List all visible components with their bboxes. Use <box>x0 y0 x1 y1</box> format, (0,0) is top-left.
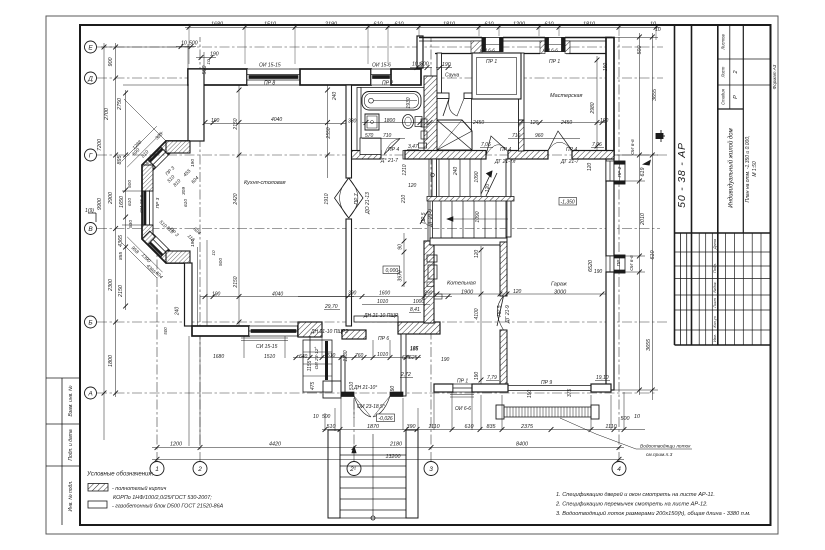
interior stair lower flight <box>430 201 507 238</box>
svg-text:Сауна: Сауна <box>445 73 460 79</box>
garage south wall right pier <box>591 384 611 392</box>
svg-text:ПР 4: ПР 4 <box>500 147 511 153</box>
south entry wall chunk left <box>298 322 322 337</box>
svg-text:- полнотелый кирпич: - полнотелый кирпич <box>112 485 166 492</box>
south ext lines to bottom band <box>188 336 190 446</box>
bathroom north thin line <box>360 87 424 89</box>
svg-text:1800: 1800 <box>108 355 114 367</box>
bay facet W window <box>142 191 144 225</box>
kitchen bottom dim line <box>200 296 354 298</box>
toilet <box>403 115 423 129</box>
svg-text:7,79: 7,79 <box>487 375 497 381</box>
svg-text:2900: 2900 <box>108 192 114 205</box>
bay dim lines SW <box>127 237 162 272</box>
svg-text:ОИ 23-18,5°: ОИ 23-18,5° <box>357 404 385 410</box>
garage gate opening <box>508 386 591 391</box>
wall top-left exterior seg2 <box>300 69 371 85</box>
svg-text:120: 120 <box>530 120 539 126</box>
axis circle V <box>85 223 97 235</box>
svg-text:900: 900 <box>108 58 114 67</box>
workshop chimney block <box>472 53 521 99</box>
exterior stair right rail <box>406 430 418 518</box>
svg-text:13200: 13200 <box>386 454 401 460</box>
svg-text:Подп.: Подп. <box>713 263 717 273</box>
svg-text:1650: 1650 <box>119 196 125 208</box>
svg-text:Дата: Дата <box>713 239 717 250</box>
bay facet W pier b <box>142 225 153 239</box>
svg-text:610: 610 <box>127 198 133 206</box>
svg-text:2300: 2300 <box>108 279 114 292</box>
bath dim line 570 <box>362 138 405 140</box>
leader to drain note <box>560 418 692 449</box>
bay bottom band <box>166 251 190 263</box>
svg-text:ОИ 15-6: ОИ 15-6 <box>139 195 145 213</box>
south hall wall with PR6 door <box>342 330 366 339</box>
boiler window sill <box>450 395 474 398</box>
svg-text:610: 610 <box>485 22 494 28</box>
svg-text:1910: 1910 <box>324 193 330 204</box>
svg-text:-0,026: -0,026 <box>379 416 393 422</box>
revision table rows <box>675 233 771 345</box>
room labels <box>244 73 583 423</box>
svg-text:210: 210 <box>401 195 407 205</box>
kitchen interior vdim line2 <box>327 85 329 178</box>
svg-text:ДН 21-10°: ДН 21-10° <box>353 385 377 391</box>
svg-text:1930: 1930 <box>406 97 412 108</box>
sauna block north wall inner face <box>435 53 612 55</box>
svg-text:ПР 2: ПР 2 <box>616 255 622 266</box>
svg-text:Лист: Лист <box>721 66 726 78</box>
kitchen interior vdim line <box>238 85 240 326</box>
svg-text:1510: 1510 <box>264 22 276 28</box>
workshop door fan 2 <box>548 131 572 151</box>
boiler room north wall <box>430 238 507 245</box>
svg-text:710: 710 <box>383 133 392 139</box>
svg-text:190: 190 <box>594 269 603 275</box>
boiler/garage wall lower <box>500 330 507 387</box>
axis V line <box>97 228 660 230</box>
svg-text:Е: Е <box>88 45 93 52</box>
svg-text:3,47: 3,47 <box>408 144 418 150</box>
svg-text:1090: 1090 <box>474 171 480 182</box>
svg-text:ОИ 15-15: ОИ 15-15 <box>259 63 281 69</box>
svg-text:19,10: 19,10 <box>596 375 609 381</box>
axis circle 1 <box>150 462 164 476</box>
hall dim line2 <box>362 304 430 306</box>
svg-text:Лист: Лист <box>713 298 717 309</box>
svg-text:500: 500 <box>322 414 331 420</box>
stair right wall <box>506 159 511 237</box>
tambour west wall <box>341 356 345 396</box>
svg-text:10: 10 <box>206 59 211 65</box>
svg-text:10: 10 <box>634 414 640 420</box>
svg-text:500: 500 <box>621 416 630 422</box>
closet partition above boiler <box>428 197 433 241</box>
svg-text:610: 610 <box>395 22 404 28</box>
svg-text:4: 4 <box>617 466 621 473</box>
svg-text:610: 610 <box>545 22 554 28</box>
svg-text:2550: 2550 <box>326 127 332 139</box>
axis 3 line <box>430 37 432 462</box>
door PR5 boiler arc <box>497 296 503 330</box>
svg-text:Условные обозначения:: Условные обозначения: <box>86 472 154 478</box>
axis circle 3 <box>424 462 438 476</box>
kitchen south window sill <box>241 338 288 341</box>
right band ext lines <box>614 37 658 39</box>
svg-text:10: 10 <box>313 414 319 420</box>
drain grate <box>496 405 599 419</box>
svg-text:570: 570 <box>365 133 374 139</box>
wall top-left exterior seg3 <box>391 69 421 85</box>
hall dim line <box>298 296 452 298</box>
left margin stamp cells <box>46 378 80 525</box>
svg-text:380: 380 <box>348 119 357 125</box>
svg-text:500: 500 <box>218 258 224 266</box>
svg-text:29,70: 29,70 <box>324 304 338 310</box>
axis 2' line <box>353 392 355 462</box>
svg-text:710: 710 <box>512 133 521 139</box>
svg-text:2,72: 2,72 <box>400 372 411 378</box>
svg-text:Мастерская: Мастерская <box>550 93 583 99</box>
svg-text:1680: 1680 <box>211 22 223 28</box>
svg-text:ОИ 6-6: ОИ 6-6 <box>629 255 635 271</box>
bay dim lines NW <box>127 132 162 167</box>
porch ext lines <box>340 398 342 430</box>
svg-text:КОРПо 1НФ/100/2,0/25/ГОСТ 530-: КОРПо 1НФ/100/2,0/25/ГОСТ 530-2007; <box>113 495 212 501</box>
svg-text:2: 2 <box>733 70 739 74</box>
svg-text:1200: 1200 <box>513 22 525 28</box>
section mark 1(9) <box>88 213 96 222</box>
svg-text:960: 960 <box>535 133 544 139</box>
svg-text:50 - 38 - АР: 50 - 38 - АР <box>676 142 688 208</box>
axis B line <box>97 321 668 323</box>
svg-text:2450: 2450 <box>560 120 572 126</box>
svg-text:2700: 2700 <box>104 108 110 121</box>
svg-text:1090: 1090 <box>475 211 481 222</box>
section arrowhead lower <box>642 160 651 166</box>
window PR2/OI6-6 right upper <box>606 161 625 184</box>
svg-text:ДГ 21-7л: ДГ 21-7л <box>494 159 516 165</box>
mark 19.10 <box>595 375 610 381</box>
stair hall west wall <box>432 159 437 197</box>
mark 2.72 <box>400 372 413 378</box>
svg-text:3. Водоотводящий лоток размера: 3. Водоотводящий лоток размерами 200х150… <box>556 510 751 517</box>
kitchen east wall lower <box>346 219 352 326</box>
svg-text:610: 610 <box>374 22 383 28</box>
right exterior wall mid with window gaps <box>606 155 614 181</box>
svg-text:190: 190 <box>527 390 533 399</box>
svg-text:1600: 1600 <box>379 291 390 297</box>
svg-text:ОИ 15-6: ОИ 15-6 <box>372 63 391 69</box>
svg-text:760: 760 <box>355 353 364 359</box>
workshop dim line <box>424 122 606 124</box>
bay facet W pier a <box>142 165 153 191</box>
svg-text:ОИ 23-12°: ОИ 23-12° <box>314 347 320 370</box>
axis 4 line <box>618 37 620 462</box>
bathroom closet <box>360 138 381 155</box>
svg-text:ОИ 6-6: ОИ 6-6 <box>543 48 558 53</box>
svg-text:4040: 4040 <box>271 117 282 123</box>
legend block box <box>88 501 107 508</box>
axis circle 4 <box>612 462 626 476</box>
svg-text:Подп. и дата: Подп. и дата <box>68 429 74 461</box>
svg-text:Взам. инв. №: Взам. инв. № <box>68 385 74 417</box>
wash basin <box>365 114 379 130</box>
svg-text:2420: 2420 <box>233 193 239 205</box>
svg-text:9900: 9900 <box>97 198 103 210</box>
svg-text:120: 120 <box>474 250 480 259</box>
svg-text:Водоотводящи лоток: Водоотводящи лоток <box>640 444 691 450</box>
bay inner outline <box>153 153 190 251</box>
svg-text:640: 640 <box>299 354 308 360</box>
wall step left of sauna block <box>417 36 423 68</box>
svg-text:240: 240 <box>175 307 181 317</box>
svg-text:2. Спецификацию перемычек смот: 2. Спецификацию перемычек смотреть на ли… <box>555 502 708 508</box>
svg-text:835: 835 <box>487 424 497 430</box>
svg-text:240: 240 <box>453 167 459 177</box>
bath/sauna thick wall <box>424 76 437 155</box>
level mark 0.000 <box>383 266 400 274</box>
bay facet SW pier a <box>142 231 155 245</box>
stair up arrow chevron <box>481 171 497 196</box>
exterior stair left rail <box>328 430 340 518</box>
svg-text:510: 510 <box>327 424 336 430</box>
door DO21-13 double swing <box>335 178 364 218</box>
svg-text:2750: 2750 <box>117 98 123 111</box>
svg-text:500: 500 <box>637 46 643 55</box>
svg-text:500: 500 <box>202 66 208 75</box>
svg-text:190: 190 <box>474 372 480 381</box>
svg-text:1010: 1010 <box>377 352 388 358</box>
axis circle 2' <box>347 462 361 476</box>
bay window construction <box>122 126 191 278</box>
bay facet SW pier b <box>160 250 174 263</box>
right exterior wall upper <box>606 38 614 156</box>
svg-text:ПР 1: ПР 1 <box>457 379 468 385</box>
svg-text:120: 120 <box>408 183 417 189</box>
svg-text:3000: 3000 <box>554 290 567 296</box>
stair axis line <box>352 434 375 520</box>
section cut bar <box>325 341 328 380</box>
svg-text:М 1:50: М 1:50 <box>752 161 758 177</box>
mark 8.41 <box>409 307 421 313</box>
axis 2 line <box>199 37 201 462</box>
svg-text:240: 240 <box>332 92 338 102</box>
svg-text:500: 500 <box>418 62 423 70</box>
title block outer lines <box>675 25 771 345</box>
kitchen south wall seg2 <box>298 326 310 336</box>
svg-text:А: А <box>87 391 92 398</box>
svg-text:185: 185 <box>410 347 419 353</box>
svg-text:ДГ 21-9: ДГ 21-9 <box>428 209 434 228</box>
axis A line <box>97 392 655 394</box>
bay facet NW pier a <box>160 141 174 154</box>
mark 7.06 b <box>591 142 604 148</box>
window PR2/OI6-6 right lower <box>606 255 625 273</box>
svg-text:530: 530 <box>128 220 134 228</box>
sauna stove <box>437 120 472 150</box>
top dimension line <box>176 22 661 75</box>
svg-text:1210: 1210 <box>402 164 408 175</box>
svg-text:Б: Б <box>88 320 92 327</box>
svg-text:10: 10 <box>412 62 418 68</box>
side porch steps <box>303 340 332 392</box>
sauna south wall w/ door <box>437 93 449 99</box>
svg-text:500: 500 <box>189 41 198 47</box>
axis circle A <box>85 387 97 399</box>
svg-text:ПР 8: ПР 8 <box>264 81 275 87</box>
svg-text:309: 309 <box>181 187 187 195</box>
svg-text:4365: 4365 <box>118 234 124 247</box>
sauna block north wall outer face <box>419 38 612 42</box>
svg-text:СИ 15-15: СИ 15-15 <box>256 344 278 350</box>
legend brick hatch box <box>88 484 108 492</box>
sub dims top-left corner <box>181 27 661 74</box>
svg-text:8400: 8400 <box>516 442 528 448</box>
left dimension band <box>85 43 128 440</box>
interior dim lines <box>101 38 658 447</box>
hall south wall right part <box>398 322 440 334</box>
bay facet NW pier b <box>142 159 155 173</box>
svg-text:В: В <box>88 226 93 233</box>
svg-text:Кухня-столовая: Кухня-столовая <box>244 180 286 186</box>
svg-text:2150: 2150 <box>233 118 239 130</box>
svg-text:1900: 1900 <box>461 290 474 296</box>
kitchen top dim line <box>204 123 346 125</box>
svg-text:2980: 2980 <box>590 102 596 114</box>
svg-text:1510: 1510 <box>264 354 275 360</box>
svg-text:ПР 4: ПР 4 <box>566 147 577 153</box>
svg-text:ПР 1: ПР 1 <box>549 59 560 65</box>
svg-text:1(9): 1(9) <box>85 208 94 214</box>
window OI15-6 top <box>371 69 391 85</box>
bathroom west wall thin <box>357 88 361 156</box>
svg-text:190: 190 <box>441 357 450 363</box>
svg-text:1680: 1680 <box>213 354 224 360</box>
svg-text:619: 619 <box>640 168 646 177</box>
kitchen west wall upper <box>188 69 204 141</box>
axis D line <box>97 77 663 79</box>
wall top-left exterior seg1 <box>188 69 247 85</box>
svg-text:10: 10 <box>655 27 661 33</box>
svg-text:7200: 7200 <box>97 139 103 151</box>
sauna door arc <box>443 99 464 117</box>
chimney-stove connector <box>471 99 473 131</box>
axis circle E <box>85 41 97 53</box>
bath dim line <box>362 122 424 124</box>
mark 7.79 <box>486 375 499 381</box>
svg-text:Листов: Листов <box>721 34 726 51</box>
svg-text:475: 475 <box>310 382 316 391</box>
svg-text:1000: 1000 <box>413 299 424 305</box>
svg-text:855: 855 <box>118 252 124 260</box>
svg-text:2010: 2010 <box>640 213 646 226</box>
svg-text:4420: 4420 <box>269 442 281 448</box>
svg-text:1800: 1800 <box>384 118 395 124</box>
svg-text:ПР 7: ПР 7 <box>354 193 360 204</box>
boiler equipment <box>427 255 442 299</box>
svg-text:1230: 1230 <box>343 350 349 361</box>
bath south / hall north wall <box>352 151 382 160</box>
boiler interior vdim line <box>480 246 482 384</box>
axis circle D <box>85 72 97 84</box>
svg-text:375: 375 <box>567 389 573 398</box>
svg-text:2¹: 2¹ <box>349 466 357 473</box>
north wall pilaster hatch 1 <box>471 41 482 54</box>
window lintel box north 2 <box>545 38 565 52</box>
workshop interior vdim <box>596 56 598 150</box>
kitchen south window OI15-15 <box>249 326 298 336</box>
bath door leaf <box>384 139 400 155</box>
AXES <box>85 37 669 476</box>
entry landing square <box>323 381 341 398</box>
handrail post upper <box>431 173 435 177</box>
svg-text:- газобетонный блок D500 ГОСТ: - газобетонный блок D500 ГОСТ 21520-86А <box>112 503 224 510</box>
svg-text:Котельная: Котельная <box>447 281 476 287</box>
boiler dim line <box>434 293 606 295</box>
left band ext lines <box>101 46 189 48</box>
north wall pilaster hatch 2 <box>540 41 545 54</box>
svg-text:Гараж: Гараж <box>551 282 567 288</box>
garage ext lines <box>451 392 453 430</box>
svg-text:1010: 1010 <box>377 299 388 305</box>
svg-text:см.прим.п.3: см.прим.п.3 <box>646 452 673 458</box>
svg-text:500: 500 <box>163 327 168 335</box>
svg-text:ПР 2: ПР 2 <box>382 81 393 87</box>
svg-text:ПР 1: ПР 1 <box>486 59 497 65</box>
svg-text:Д: Д <box>87 76 93 83</box>
svg-text:2150: 2150 <box>118 285 124 298</box>
workshop dim line2 <box>508 138 580 140</box>
svg-text:Стадия: Стадия <box>721 88 726 104</box>
svg-text:190: 190 <box>190 239 196 247</box>
svg-text:ОИ 6-6: ОИ 6-6 <box>455 406 471 412</box>
svg-text:2375: 2375 <box>520 424 534 430</box>
svg-text:ПР 3: ПР 3 <box>155 197 161 208</box>
sauna west partition <box>437 53 442 93</box>
svg-text:8,41: 8,41 <box>410 307 420 313</box>
south porch dim line <box>293 357 421 359</box>
bay top band <box>166 141 190 153</box>
bottom dimension band <box>152 414 692 462</box>
svg-text:План на отм. -1.350 и 0.000,: План на отм. -1.350 и 0.000, <box>745 135 751 202</box>
interior stair upper flight <box>429 159 481 196</box>
mark 3.47 <box>407 144 419 150</box>
svg-text:7,06: 7,06 <box>481 142 491 148</box>
svg-text:2180: 2180 <box>389 442 402 448</box>
svg-text:Р: Р <box>733 95 739 99</box>
boiler room west wall <box>424 241 434 323</box>
tambour east wall <box>401 334 406 396</box>
svg-text:4100: 4100 <box>474 308 480 319</box>
bay facet SW window <box>148 244 161 257</box>
svg-text:2: 2 <box>197 466 202 473</box>
kitchen south wall seg1 <box>192 326 249 336</box>
svg-text:ПР 9: ПР 9 <box>541 380 552 386</box>
kitchen east wall upper <box>346 85 352 178</box>
svg-text:190: 190 <box>603 63 609 72</box>
bay outer outline <box>142 141 190 263</box>
axis circle 2 <box>193 462 207 476</box>
section arrow right <box>656 130 665 142</box>
svg-text:Формат А3: Формат А3 <box>772 64 777 89</box>
south wall boiler w/ PR1 window <box>434 384 453 392</box>
svg-text:ПР 5: ПР 5 <box>497 305 503 316</box>
svg-text:2150: 2150 <box>233 276 239 288</box>
svg-text:90: 90 <box>398 244 404 250</box>
axis G line <box>97 154 668 156</box>
svg-text:3970: 3970 <box>398 270 404 281</box>
